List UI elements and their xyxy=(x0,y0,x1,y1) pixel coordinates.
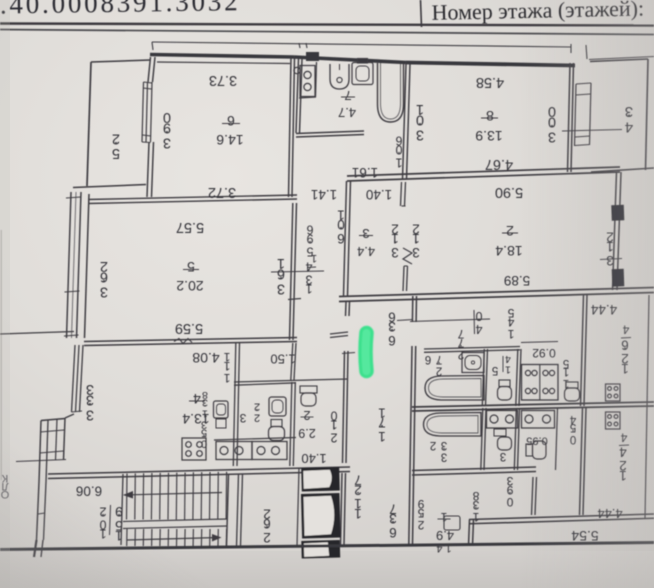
svg-text:.40.0008391.3032: .40.0008391.3032 xyxy=(0,0,241,19)
svg-text:3: 3 xyxy=(100,283,108,299)
top wall room 6 xyxy=(150,55,294,58)
dim tick room 5 xyxy=(271,271,324,272)
svg-text:1: 1 xyxy=(440,510,447,524)
svg-text:5: 5 xyxy=(112,145,120,161)
svg-text:3: 3 xyxy=(441,451,447,463)
svg-text:1: 1 xyxy=(395,155,402,169)
west balcony rail xyxy=(67,192,72,338)
bath6/wc5 wall xyxy=(486,349,488,406)
svg-text:4: 4 xyxy=(475,322,482,336)
stove 2-burner xyxy=(300,66,315,97)
dim pointer 4.0 xyxy=(410,319,490,322)
svg-text:1: 1 xyxy=(305,281,312,295)
wall rooms 4/3 xyxy=(237,343,240,466)
svg-text:3: 3 xyxy=(391,245,399,260)
partition stub top xyxy=(401,182,402,206)
vestibule west wall xyxy=(294,343,296,380)
svg-text:4.58: 4.58 xyxy=(476,74,504,90)
west wall jog xyxy=(65,414,74,418)
room 2 top wall xyxy=(347,172,620,181)
room 12.6 west wall xyxy=(584,295,587,406)
basin row wall xyxy=(214,438,296,441)
black window piers xyxy=(611,205,624,221)
west dim pointer xyxy=(0,332,74,335)
svg-text:3: 3 xyxy=(239,411,246,425)
svg-text:2: 2 xyxy=(417,518,424,532)
tick below door xyxy=(342,353,355,354)
svg-text:1.40: 1.40 xyxy=(366,187,392,202)
elevator cell 3 xyxy=(301,540,340,559)
green highlighter mark xyxy=(366,333,367,371)
kitchen left wall xyxy=(296,59,299,133)
room 6 left wall xyxy=(148,57,151,82)
svg-text:1: 1 xyxy=(378,429,386,444)
bath 6 tub xyxy=(425,376,484,401)
corridor west wall mid xyxy=(346,351,348,463)
svg-text:5.59: 5.59 xyxy=(175,320,203,336)
wall rooms 3/2 xyxy=(293,382,295,466)
elevator cell 1 xyxy=(301,467,340,491)
porch dim tick xyxy=(16,460,66,462)
svg-text:6: 6 xyxy=(227,113,235,129)
flats divider wall xyxy=(412,402,654,407)
svg-text:3: 3 xyxy=(86,406,94,422)
stair treads lower xyxy=(126,529,128,546)
balcony 4.3 top xyxy=(590,59,648,62)
partition stub bottom xyxy=(403,266,404,291)
svg-text:2: 2 xyxy=(263,530,271,545)
svg-text:2: 2 xyxy=(254,412,260,424)
toilet ne xyxy=(566,382,578,388)
sink U xyxy=(330,64,349,89)
svg-text:13.9: 13.9 xyxy=(475,128,502,144)
balcony 5.2 left wall xyxy=(87,62,91,186)
header cell divider xyxy=(421,0,422,27)
svg-text:0: 0 xyxy=(506,495,513,509)
walls lower flat xyxy=(484,408,486,470)
stair rail arrow lower xyxy=(127,538,219,541)
room 2.9 toilet xyxy=(300,386,317,393)
svg-text:2: 2 xyxy=(430,439,436,451)
stove pair upper xyxy=(522,365,559,401)
header label xyxy=(431,0,644,25)
bottom border line xyxy=(0,543,654,550)
stair treads upper xyxy=(126,474,129,520)
svg-text:4.67: 4.67 xyxy=(485,156,513,172)
kitchen right wall xyxy=(403,64,407,179)
svg-text:3: 3 xyxy=(277,280,285,296)
svg-text:5.90: 5.90 xyxy=(495,184,523,200)
svg-text:2: 2 xyxy=(457,348,464,362)
svg-text:4.9: 4.9 xyxy=(436,528,454,543)
basin box 1 xyxy=(216,442,252,460)
stove nook xyxy=(316,62,317,97)
basin pair mid xyxy=(487,411,518,429)
stair east wall xyxy=(227,474,229,546)
room 6 bottom wall xyxy=(88,195,297,200)
wall top of rooms 3/2 xyxy=(234,379,348,382)
svg-text:6: 6 xyxy=(425,353,431,365)
svg-text:3.73: 3.73 xyxy=(209,72,237,88)
svg-text:6: 6 xyxy=(389,525,397,540)
bath 3.3 tub xyxy=(424,413,482,437)
stair rail arrow upper xyxy=(124,493,222,496)
svg-text:1: 1 xyxy=(507,327,514,341)
svg-text:2: 2 xyxy=(303,408,310,422)
toilet mid xyxy=(498,437,512,450)
svg-text:3: 3 xyxy=(416,126,424,142)
break squiggle xyxy=(174,339,192,344)
svg-text:4.7: 4.7 xyxy=(338,105,356,120)
room 3 toilet xyxy=(271,420,282,427)
svg-text:1: 1 xyxy=(505,364,511,376)
lobby east wall xyxy=(237,474,239,546)
svg-text:14.6: 14.6 xyxy=(216,132,243,148)
svg-text:4.08: 4.08 xyxy=(192,350,219,366)
corridor east wall xyxy=(413,346,416,545)
svg-text:1: 1 xyxy=(202,407,208,419)
room 3 sink xyxy=(269,397,286,416)
basin pair right xyxy=(522,411,555,429)
corridor west wall upper xyxy=(348,302,351,316)
svg-text:3.72: 3.72 xyxy=(208,184,236,200)
top dimension line xyxy=(152,42,571,47)
nook sink xyxy=(214,401,229,418)
window band room 6 left xyxy=(142,82,144,142)
room 5 west face xyxy=(85,194,90,338)
room 2 right wall xyxy=(617,172,621,290)
top wall kitchen xyxy=(294,57,406,63)
door threshold stub xyxy=(330,332,348,334)
room 8 right wall xyxy=(571,63,574,172)
header rule upper xyxy=(0,24,654,26)
svg-text:5: 5 xyxy=(187,259,195,275)
kitchen bottom wall xyxy=(296,131,364,134)
svg-text:8: 8 xyxy=(486,108,494,124)
svg-text:1.41: 1.41 xyxy=(311,187,337,202)
paper edge line xyxy=(0,230,2,480)
main middle wall xyxy=(339,288,654,297)
svg-text:3: 3 xyxy=(412,245,420,260)
bath block bottom wall xyxy=(412,467,536,471)
svg-text:3: 3 xyxy=(500,450,506,462)
svg-text:3: 3 xyxy=(362,226,369,241)
svg-text:18.4: 18.4 xyxy=(495,243,522,259)
wc5/nook wall xyxy=(519,349,521,406)
header rule lower xyxy=(0,30,654,35)
svg-text:4.4: 4.4 xyxy=(357,244,375,259)
svg-text:5: 5 xyxy=(492,364,498,376)
toilet lower right xyxy=(526,444,533,456)
svg-text:1.61: 1.61 xyxy=(352,165,378,180)
window band room 8/balcony xyxy=(575,84,577,146)
elevator cell 2 xyxy=(301,493,341,538)
hall wall tick xyxy=(288,299,301,300)
washbasin xyxy=(352,63,373,85)
bathtub 7 xyxy=(378,63,404,122)
balcony 4.3 right wall xyxy=(646,59,649,170)
room 5 right wall xyxy=(293,203,297,340)
svg-text:3: 3 xyxy=(163,134,171,150)
room 4 stove xyxy=(182,438,206,460)
svg-text:1.40: 1.40 xyxy=(301,451,326,466)
svg-text:6: 6 xyxy=(388,333,396,348)
right rooms stoves xyxy=(606,384,621,401)
svg-text:2: 2 xyxy=(506,223,514,239)
door mark xyxy=(294,67,300,73)
elevator col west line xyxy=(297,468,299,546)
hall right wall xyxy=(348,181,351,296)
partition zigzag xyxy=(403,248,412,264)
room 5 bottom wall xyxy=(84,338,297,342)
balcony 4.3 dim tick xyxy=(586,45,587,59)
dim pointer 3.00 xyxy=(562,130,622,132)
bottom right west wall xyxy=(469,520,470,547)
room 6 right wall xyxy=(289,57,292,197)
wc 5 toilet xyxy=(499,380,510,387)
svg-text:2: 2 xyxy=(330,430,337,444)
balcony 5.2 top xyxy=(91,60,150,62)
top wall room 8 xyxy=(406,63,575,66)
wall pier xyxy=(306,52,319,61)
corridor west wall lower xyxy=(344,473,346,545)
main lower divider wall xyxy=(48,467,350,474)
svg-text:20.2: 20.2 xyxy=(176,278,203,294)
svg-text:6: 6 xyxy=(337,231,345,246)
svg-text:5.57: 5.57 xyxy=(176,219,204,235)
stair west edge xyxy=(121,474,123,545)
balcony 4.3 bottom xyxy=(591,168,654,172)
svg-text:2.9: 2.9 xyxy=(298,426,315,440)
svg-text:1: 1 xyxy=(354,506,362,521)
bottom right top wall xyxy=(469,514,654,520)
basin box 2 xyxy=(252,442,287,460)
entrance west wall xyxy=(39,421,41,483)
svg-text:7: 7 xyxy=(344,88,351,103)
stair landing xyxy=(123,519,227,522)
svg-text:1: 1 xyxy=(223,371,230,385)
svg-text:2: 2 xyxy=(436,365,442,377)
bath 6 top wall xyxy=(424,347,520,350)
balcony 5.2 bottom xyxy=(73,185,146,188)
building east wall xyxy=(645,295,649,519)
svg-text:4: 4 xyxy=(193,391,201,407)
bath 6 sink xyxy=(462,353,484,373)
bath 3.3 sink xyxy=(444,516,460,530)
room 1 east wall xyxy=(535,477,537,515)
room 4 west wall band xyxy=(72,345,76,412)
